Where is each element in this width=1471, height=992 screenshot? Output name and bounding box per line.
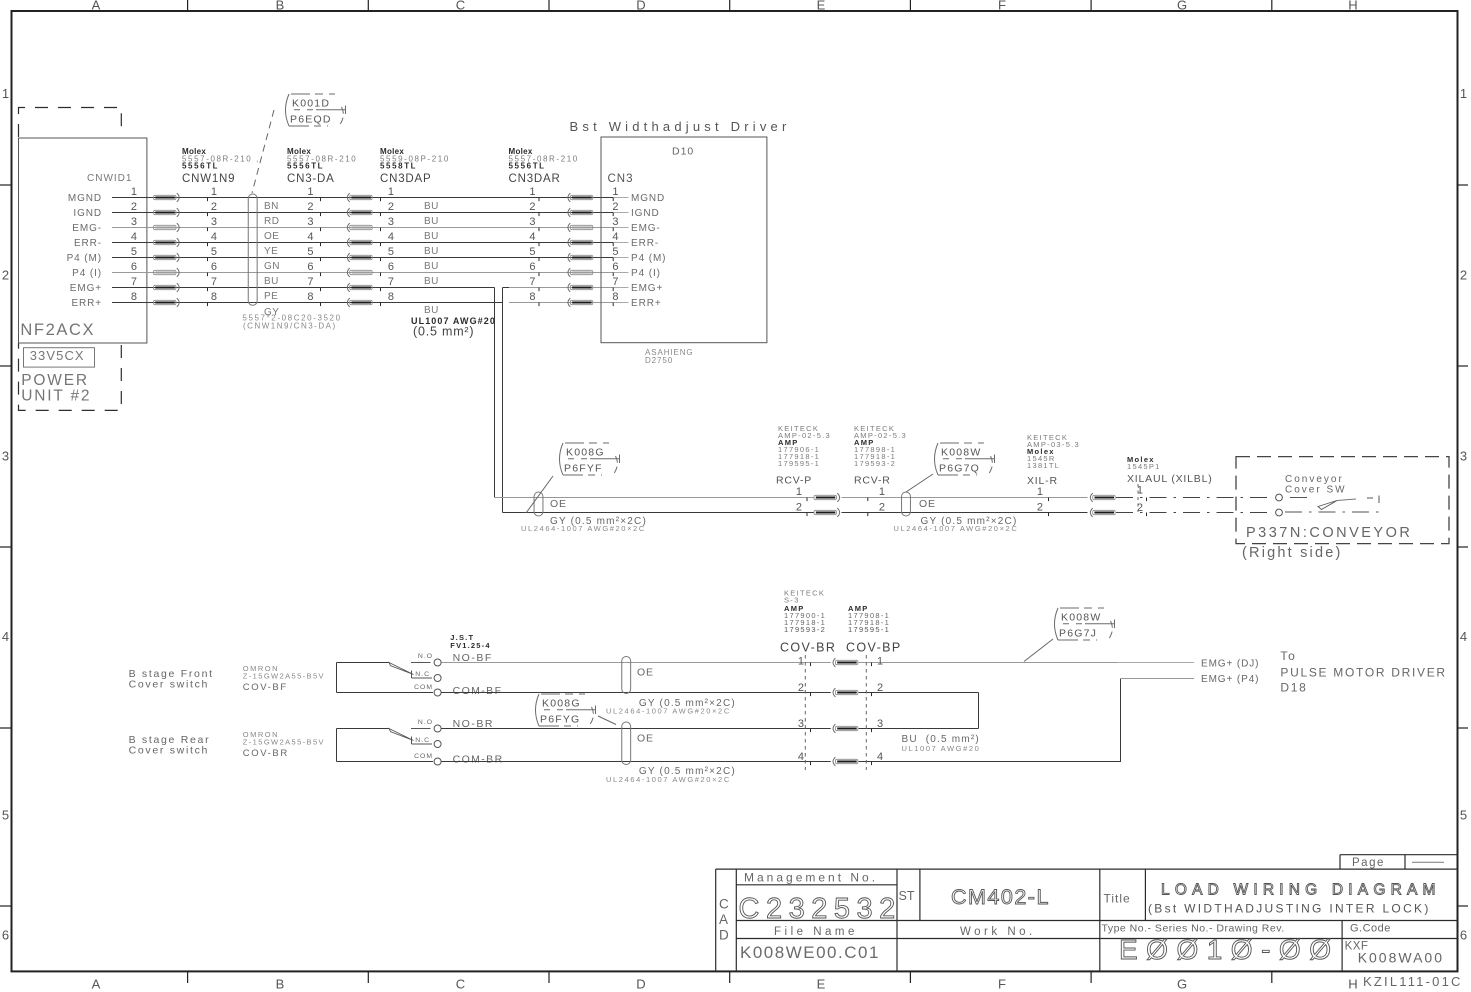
svg-text:6: 6 [529,261,535,273]
svg-text:B: B [276,0,285,13]
svg-text:P4 (M): P4 (M) [67,253,102,264]
svg-text:3: 3 [798,718,804,730]
svg-text:4: 4 [307,231,313,243]
svg-text:D10: D10 [672,146,694,158]
svg-text:2: 2 [307,201,313,213]
svg-text:P337N:CONVEYOR: P337N:CONVEYOR [1246,525,1412,541]
svg-text:1: 1 [1037,486,1043,498]
svg-text:COM: COM [414,684,433,691]
svg-text:1381TL: 1381TL [1027,461,1060,470]
svg-text:6: 6 [388,261,394,273]
svg-text:8: 8 [131,291,137,303]
svg-text:G: G [1177,977,1187,992]
svg-text:7: 7 [612,276,618,288]
svg-text:Work No.: Work No. [960,926,1036,938]
svg-text:2: 2 [798,682,804,694]
svg-text:D18: D18 [1280,681,1307,695]
svg-text:To: To [1280,649,1296,663]
svg-text:MGND: MGND [631,193,665,204]
svg-text:1: 1 [211,186,217,198]
svg-text:A: A [92,977,101,992]
pin ticks row 7 [207,288,209,292]
svg-text:BU: BU [424,216,439,227]
svg-text:A: A [719,912,728,927]
svg-text:2: 2 [211,201,217,213]
svg-text:1: 1 [307,186,313,198]
svg-text:1: 1 [1460,86,1467,101]
svg-text:1: 1 [796,486,802,498]
svg-text:IGND: IGND [73,208,102,219]
svg-text:D2750: D2750 [645,356,673,365]
svg-text:7: 7 [131,276,137,288]
svg-text:CM402-L: CM402-L [951,885,1050,909]
cable tag K001D/P6EQD [286,94,346,127]
svg-text:POWER: POWER [21,372,89,389]
pin ticks row 3 [207,228,209,232]
wire NO-BF [442,662,831,664]
svg-text:P6EQD: P6EQD [290,114,332,126]
B stage rear cover switch COV-BR [336,729,338,762]
svg-text:6: 6 [211,261,217,273]
pin ticks row 4 [207,243,209,247]
svg-text:ST: ST [899,889,915,903]
svg-text:3: 3 [877,718,883,730]
svg-text:EMG+ (P4): EMG+ (P4) [1201,674,1259,685]
wire EMG+ row 7 [112,287,495,289]
svg-text:RCV-P: RCV-P [776,475,812,487]
svg-text:BU: BU [424,246,439,257]
svg-text:5: 5 [388,246,394,258]
svg-text:2: 2 [877,682,883,694]
svg-text:E: E [817,0,826,13]
svg-text:ERR+: ERR+ [71,298,102,309]
svg-text:5556TL: 5556TL [509,162,546,171]
svg-text:4: 4 [798,751,804,763]
svg-text:5558TL: 5558TL [380,162,417,171]
svg-text:UNIT #2: UNIT #2 [21,388,91,405]
svg-text:EMG-: EMG- [631,223,661,234]
svg-text:(Right side): (Right side) [1242,545,1343,561]
svg-text:33V5CX: 33V5CX [30,348,85,363]
svg-text:K008W: K008W [941,447,981,459]
pin ticks row 6 [207,273,209,277]
series link COM-BF to NO-BR [978,693,980,729]
svg-text:OE: OE [919,498,936,510]
svg-text:5556TL: 5556TL [287,162,324,171]
svg-text:F: F [998,977,1006,992]
svg-text:3: 3 [529,216,535,228]
wire MGND row 1 [112,197,613,199]
svg-text:P6G7J: P6G7J [1059,628,1097,640]
svg-text:1: 1 [529,186,535,198]
svg-text:COM: COM [414,753,433,760]
svg-text:KZIL111-01C: KZIL111-01C [1363,974,1463,989]
svg-text:2: 2 [796,502,802,514]
svg-text:3: 3 [307,216,313,228]
svg-text:8: 8 [612,291,618,303]
svg-text:OE: OE [637,667,654,679]
svg-text:UL2464-1007 AWG#20×2C: UL2464-1007 AWG#20×2C [606,775,731,784]
svg-text:5: 5 [612,246,618,258]
svg-text:N.O: N.O [418,653,433,660]
svg-text:2: 2 [1037,502,1043,514]
svg-text:Title: Title [1104,892,1131,906]
svg-text:2: 2 [612,201,618,213]
svg-text:BU: BU [424,305,439,316]
svg-text:NF2ACX: NF2ACX [20,321,95,339]
svg-text:CNW1N9: CNW1N9 [182,173,235,185]
svg-text:K008G: K008G [542,698,581,710]
svg-text:179595-1: 179595-1 [778,459,820,468]
svg-text:1: 1 [798,656,804,668]
svg-text:N.O: N.O [418,719,433,726]
svg-text:D: D [719,928,729,943]
svg-text:5: 5 [1460,808,1467,823]
svg-text:K008W: K008W [1061,612,1101,624]
connector body COV-BP dashed [865,655,867,770]
svg-text:BU: BU [424,276,439,287]
svg-text:C: C [456,0,465,13]
svg-text:EMG-: EMG- [72,223,102,234]
cable tag K008G/P6FYG [536,694,596,727]
connector body XILAUL dashed [1137,484,1139,512]
svg-text:2: 2 [879,502,885,514]
pin ticks row 5 [207,258,209,262]
svg-text:PE: PE [264,291,278,302]
svg-text:Cover switch: Cover switch [129,745,210,757]
svg-text:B: B [276,977,285,992]
svg-text:1: 1 [388,186,394,198]
svg-text:XILAUL (XILBL): XILAUL (XILBL) [1127,473,1213,485]
svg-text:K008WA00: K008WA00 [1358,950,1444,966]
svg-text:BU: BU [424,231,439,242]
svg-text:C232532: C232532 [739,893,902,925]
svg-text:4: 4 [388,231,394,243]
svg-text:Cover switch: Cover switch [129,679,210,691]
wire IGND row 2 [112,212,613,214]
svg-text:CN3DAR: CN3DAR [509,173,561,185]
svg-text:3: 3 [131,216,137,228]
svg-text:5: 5 [211,246,217,258]
wire EMG- row 3 [112,227,613,229]
svg-text:CN3DAP: CN3DAP [380,173,431,185]
svg-text:6: 6 [1460,928,1467,943]
svg-text:7: 7 [211,276,217,288]
crimp contacts row 8 [154,298,180,307]
svg-text:1: 1 [2,86,9,101]
svg-text:EØØ1Ø-ØØ: EØØ1Ø-ØØ [1119,934,1339,965]
svg-text:D: D [636,977,645,992]
B stage front cover switch COV-BF [336,663,338,693]
cable tag K008W/P6G7J [1055,608,1115,641]
svg-text:BU: BU [424,201,439,212]
title block [716,855,1458,972]
svg-text:PULSE MOTOR DRIVER: PULSE MOTOR DRIVER [1280,666,1446,680]
svg-text:1545P1: 1545P1 [1127,462,1161,471]
svg-text:3: 3 [2,449,9,464]
cable jacket OE (K008G) [534,492,543,516]
dash-dot wires to conveyor [1116,497,1274,499]
svg-text:COM-BR: COM-BR [453,754,504,766]
wire COM-BR [442,761,831,763]
svg-text:GN: GN [264,261,280,272]
svg-text:Management No.: Management No. [744,871,878,885]
svg-text:5556TL: 5556TL [182,162,219,171]
svg-text:UL2464-1007 AWG#20×2C: UL2464-1007 AWG#20×2C [521,524,646,533]
crimp contacts row 4 [154,238,180,247]
svg-text:F: F [998,0,1006,13]
svg-text:7: 7 [307,276,313,288]
svg-text:Cover SW: Cover SW [1285,485,1347,496]
cable tag K008W/P6G7Q [935,443,995,476]
svg-text:6: 6 [612,261,618,273]
svg-text:BN: BN [264,201,279,212]
crimp contacts row 5 [154,253,180,262]
svg-text:K008G: K008G [566,447,605,459]
svg-text:P6G7Q: P6G7Q [939,463,980,475]
svg-text:2: 2 [388,201,394,213]
svg-text:UL2464-1007 AWG#20×2C: UL2464-1007 AWG#20×2C [894,524,1019,533]
svg-text:COV-BR: COV-BR [780,641,836,655]
svg-text:3: 3 [1460,449,1467,464]
svg-text:P6FYG: P6FYG [540,714,580,726]
svg-text:8: 8 [529,291,535,303]
svg-text:6: 6 [131,261,137,273]
svg-text:4: 4 [211,231,217,243]
svg-text:6: 6 [307,261,313,273]
svg-text:2: 2 [529,201,535,213]
cable jacket OE (K008W) [902,492,911,516]
svg-text:7: 7 [529,276,535,288]
svg-text:E: E [817,977,826,992]
svg-text:8: 8 [388,291,394,303]
svg-text:P4 (M): P4 (M) [631,253,666,264]
svg-text:File Name: File Name [774,926,858,938]
svg-text:YE: YE [264,246,278,257]
svg-text:5: 5 [131,246,137,258]
svg-text:FV1.25-4: FV1.25-4 [450,641,490,650]
svg-text:(0.5 mm²): (0.5 mm²) [413,325,474,339]
svg-text:4: 4 [877,751,883,763]
svg-text:8: 8 [307,291,313,303]
svg-text:CNWID1: CNWID1 [87,173,132,184]
svg-text:OE: OE [264,231,279,242]
pin ticks middle pair [806,498,808,502]
svg-text:A: A [92,0,101,13]
svg-text:EMG+: EMG+ [631,283,663,294]
svg-text:H: H [1348,977,1357,992]
crimp contacts row 2 [154,208,180,217]
svg-text:ERR-: ERR- [74,238,102,249]
svg-text:Conveyor: Conveyor [1285,474,1344,485]
svg-text:1: 1 [131,186,137,198]
svg-text:P4 (I): P4 (I) [631,268,661,279]
svg-text:C: C [456,977,465,992]
svg-text:2: 2 [2,268,9,283]
svg-text:2: 2 [1460,268,1467,283]
svg-text:COV-BR: COV-BR [243,748,289,759]
svg-text:K008WE00.C01: K008WE00.C01 [740,943,880,962]
svg-text:H: H [1348,0,1357,13]
svg-text:RD: RD [264,216,279,227]
svg-text:BU: BU [424,261,439,272]
svg-text:BU: BU [264,276,279,287]
conveyor cover switch [1276,494,1283,501]
svg-text:N.C: N.C [415,737,430,744]
svg-text:IGND: IGND [631,208,660,219]
svg-text:UL1007 AWG#20: UL1007 AWG#20 [902,744,981,753]
svg-text:4: 4 [1460,629,1467,644]
svg-text:Bst Widthadjust Driver: Bst Widthadjust Driver [570,119,791,134]
svg-text:P6FYF: P6FYF [564,463,603,475]
wire P4 (I) row 6 [112,272,613,274]
crimp contacts RCV pair [814,493,840,502]
svg-text:COV-BP: COV-BP [846,641,902,655]
svg-text:EMG+: EMG+ [70,283,102,294]
svg-text:179593-2: 179593-2 [854,459,896,468]
svg-text:5: 5 [307,246,313,258]
svg-text:CN3-DA: CN3-DA [287,173,335,185]
svg-text:3: 3 [211,216,217,228]
svg-text:Z-15GW2A55-B5V: Z-15GW2A55-B5V [243,672,325,681]
cable jacket OE rear pair [622,722,631,765]
crimp contacts XIL pair [1090,493,1115,502]
svg-text:D: D [636,0,645,13]
svg-text:G.Code: G.Code [1350,923,1391,935]
svg-text:P4 (I): P4 (I) [72,268,102,279]
svg-text:Type No.- Series No.- Drawing: Type No.- Series No.- Drawing Rev. [1102,923,1285,935]
svg-text:COV-BF: COV-BF [243,682,288,693]
wire COM-BF [442,692,831,694]
svg-text:179593-2: 179593-2 [784,625,826,634]
pin ticks row 8 [207,303,209,307]
svg-text:5: 5 [2,808,9,823]
svg-text:4: 4 [612,231,618,243]
svg-text:RCV-R: RCV-R [854,475,891,487]
svg-text:4: 4 [131,231,137,243]
svg-text:Z-15GW2A55-B5V: Z-15GW2A55-B5V [243,738,325,747]
pin ticks row 2 [207,213,209,217]
wire ERR+ row 8 [112,302,503,304]
svg-text:OE: OE [637,733,654,745]
svg-text:4: 4 [529,231,535,243]
svg-text:3: 3 [612,216,618,228]
crimp contacts row 3 [154,223,180,232]
svg-text:7: 7 [388,276,394,288]
switch arm wedge [1318,501,1337,510]
svg-text:LOAD WIRING DIAGRAM: LOAD WIRING DIAGRAM [1161,882,1441,899]
svg-text:ERR-: ERR- [631,238,659,249]
svg-text:8: 8 [211,291,217,303]
return riser to EMG+ (P4) [1120,679,1122,762]
svg-text:OE: OE [550,498,567,510]
svg-text:2: 2 [131,201,137,213]
svg-text:1: 1 [877,656,883,668]
svg-text:MGND: MGND [68,193,102,204]
svg-text:CN3: CN3 [608,173,634,185]
svg-text:5: 5 [529,246,535,258]
svg-text:1: 1 [612,186,618,198]
pin ticks row 1 [207,198,209,202]
svg-text:179595-1: 179595-1 [848,625,890,634]
svg-text:Page: Page [1352,857,1385,869]
svg-text:(CNW1N9/CN3-DA): (CNW1N9/CN3-DA) [243,322,337,331]
svg-text:EMG+ (DJ): EMG+ (DJ) [1201,659,1259,670]
svg-text:6: 6 [2,928,9,943]
wire ERR- row 4 [112,242,613,244]
svg-text:ERR+: ERR+ [631,298,662,309]
svg-text:UL2464-1007 AWG#20×2C: UL2464-1007 AWG#20×2C [606,707,731,716]
crimp contacts row 7 [154,283,180,292]
crimp contacts row 1 [154,193,180,202]
svg-text:1: 1 [879,486,885,498]
wire pair EMG+/ERR+ to conveyor SW [495,497,815,499]
connector body COV-BR dashed [804,655,806,770]
svg-text:COM-BF: COM-BF [453,685,503,697]
svg-text:4: 4 [2,629,9,644]
svg-text:(Bst WIDTHADJUSTING INTER LOCK: (Bst WIDTHADJUSTING INTER LOCK) [1148,902,1431,916]
svg-text:G: G [1177,0,1187,13]
svg-text:N.C: N.C [415,671,430,678]
cable jacket OE front pair [622,657,631,694]
svg-text:K001D: K001D [292,98,330,110]
cable tag K008G/P6FYF [560,443,620,476]
wire NO-BR [442,728,831,730]
crimp contacts row 6 [154,268,180,277]
P337N conveyor dashed box [1236,457,1449,544]
svg-text:3: 3 [388,216,394,228]
svg-text:C: C [719,897,729,912]
wire P4 (M) row 5 [112,257,613,259]
crimp contacts COV rows [833,658,858,667]
